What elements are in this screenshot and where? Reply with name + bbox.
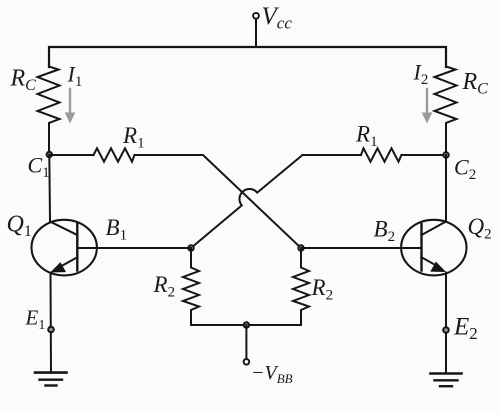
node VBB junction — [244, 322, 249, 327]
resistor R2 left — [183, 248, 199, 325]
node E2 — [443, 327, 449, 333]
wire C1 to R1 left — [49, 154, 93, 156]
svg-text:Q1: Q1 — [7, 212, 32, 241]
terminal Vcc — [253, 13, 259, 47]
svg-text:C1: C1 — [28, 153, 50, 182]
svg-text:Q2: Q2 — [468, 214, 492, 243]
ground left — [35, 373, 67, 386]
node B1 junction — [188, 245, 193, 250]
wire C1 to Q1 collector — [48, 155, 51, 222]
node E1 — [48, 327, 54, 333]
svg-text:I2: I2 — [413, 60, 429, 89]
wire base B2 — [301, 247, 400, 249]
svg-text:−VBB: −VBB — [251, 362, 293, 386]
transistor Q1 — [31, 220, 96, 276]
svg-text:B2: B2 — [374, 217, 396, 246]
wire bottom R2 bus — [191, 324, 301, 326]
svg-text:E2: E2 — [453, 314, 478, 344]
resistor RC left — [38, 67, 60, 155]
wire Q1 emitter to ground — [50, 273, 53, 372]
svg-text:B1: B1 — [106, 215, 128, 244]
resistor R2 right — [293, 248, 309, 325]
svg-text:Vcc: Vcc — [262, 3, 293, 33]
svg-text:RC: RC — [462, 69, 489, 98]
wire R1 right to cross diagonal with hop (to B1 node) — [191, 155, 303, 248]
resistor RC right — [435, 67, 457, 155]
svg-text:C2: C2 — [454, 155, 476, 184]
svg-text:I1: I1 — [67, 62, 83, 91]
svg-text:R2: R2 — [311, 275, 334, 304]
wire R1 left to cross diagonal (to B2 node) — [135, 155, 302, 248]
transistor Q2 — [400, 220, 467, 276]
current arrow I2 — [422, 89, 433, 124]
resistor R1 right — [361, 148, 402, 161]
terminal -VBB — [244, 325, 250, 365]
wire base B1 — [97, 247, 191, 249]
wire R1 right left-end to diagonal start — [303, 154, 362, 156]
svg-text:R1: R1 — [355, 122, 378, 151]
ground right — [431, 374, 462, 387]
node B2 junction — [298, 245, 303, 250]
svg-text:R2: R2 — [153, 272, 176, 301]
svg-text:R1: R1 — [122, 123, 145, 152]
wire top rail Vcc — [49, 47, 446, 67]
resistor R1 left — [94, 148, 135, 161]
wire C2 to Q2 collector — [445, 155, 447, 221]
node C1 — [47, 152, 52, 157]
svg-text:RC: RC — [10, 66, 37, 95]
current arrow I1 — [65, 89, 76, 124]
svg-text:E1: E1 — [25, 306, 46, 334]
node C2 — [443, 152, 448, 157]
wire R1 right to C2 — [402, 154, 447, 156]
wire Q2 emitter to ground — [445, 273, 447, 372]
